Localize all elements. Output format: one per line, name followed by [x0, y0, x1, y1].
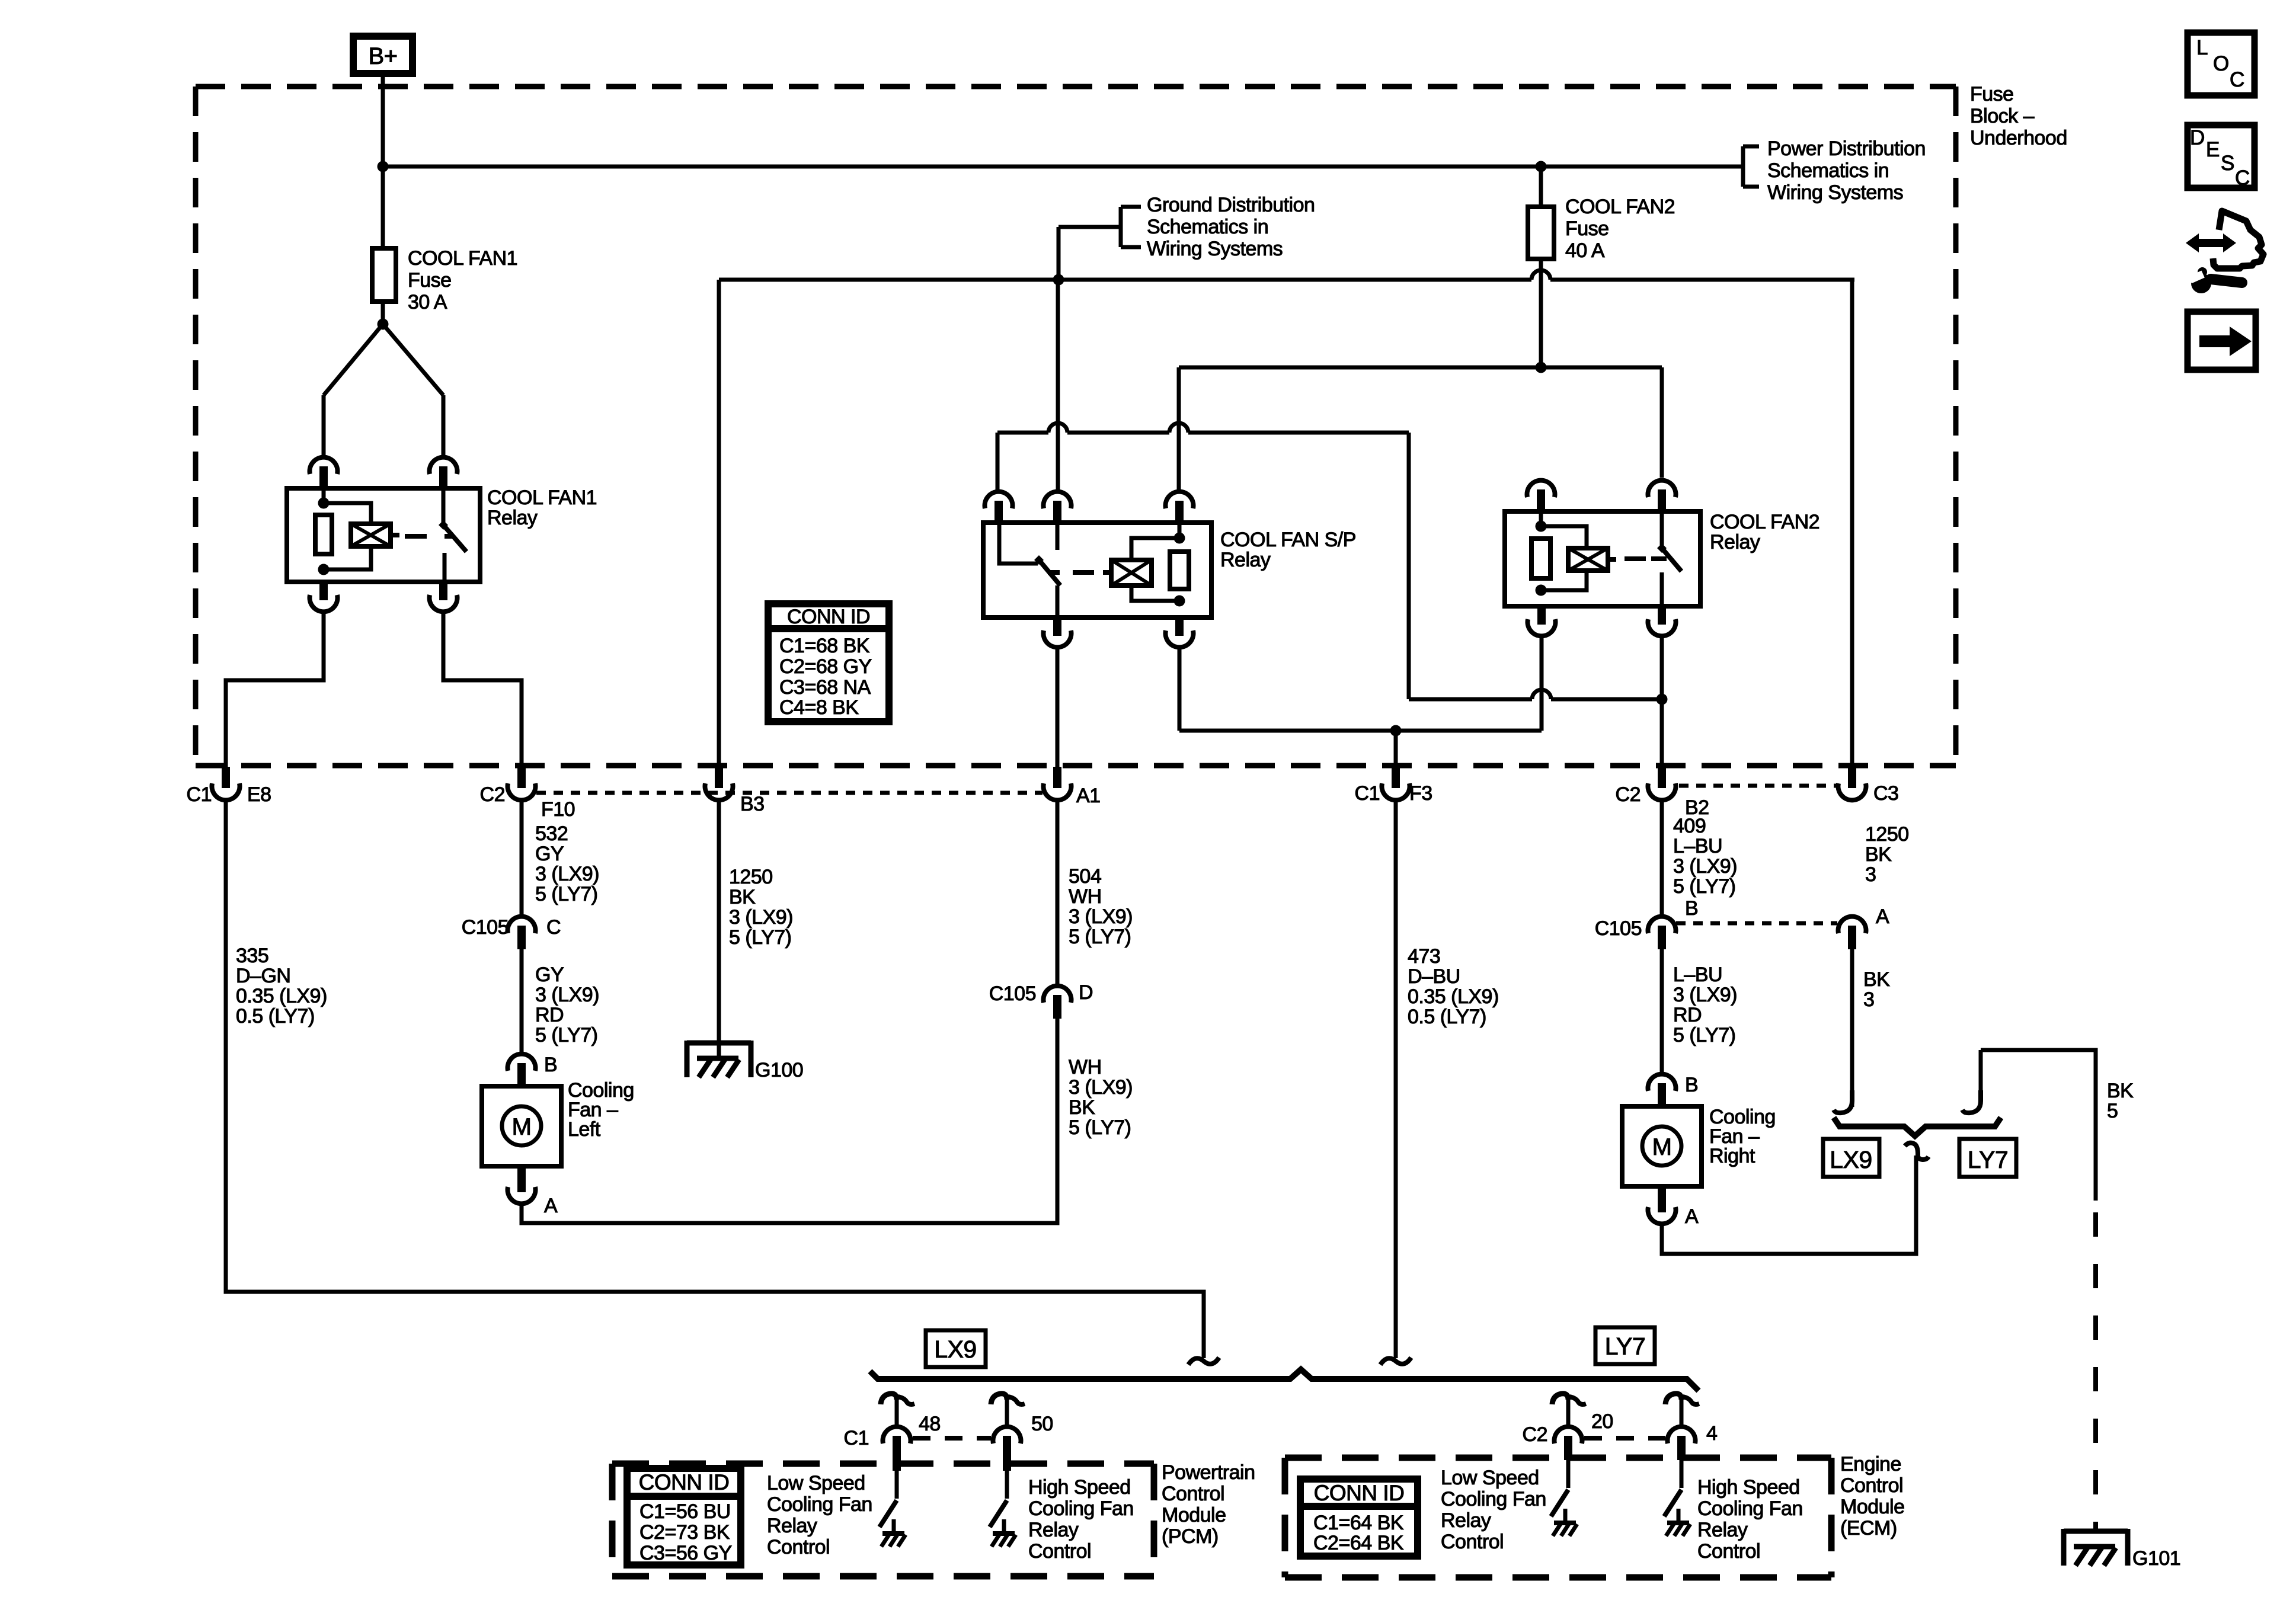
svg-text:3 (LX9): 3 (LX9) [1673, 855, 1737, 878]
svg-text:Wiring Systems: Wiring Systems [1767, 181, 1903, 204]
svg-text:BK: BK [1863, 968, 1890, 991]
svg-text:M: M [512, 1114, 532, 1140]
svg-text:5 (LY7): 5 (LY7) [1069, 1116, 1131, 1139]
svg-text:C: C [2235, 167, 2250, 190]
svg-text:3: 3 [1865, 863, 1876, 886]
svg-text:GY: GY [535, 964, 564, 986]
svg-text:20: 20 [1591, 1410, 1613, 1433]
svg-text:O: O [2213, 52, 2229, 75]
svg-text:C1: C1 [844, 1427, 869, 1449]
svg-text:Wiring Systems: Wiring Systems [1147, 238, 1283, 260]
svg-text:F3: F3 [1409, 782, 1432, 805]
svg-text:C2: C2 [480, 783, 505, 806]
svg-text:0.5 (LY7): 0.5 (LY7) [1408, 1006, 1486, 1028]
svg-text:504: 504 [1069, 865, 1101, 888]
svg-text:RD: RD [1673, 1004, 1702, 1026]
svg-text:3 (LX9): 3 (LX9) [1069, 905, 1133, 928]
svg-text:Control: Control [1697, 1540, 1760, 1563]
svg-text:532: 532 [535, 822, 568, 845]
svg-text:BK: BK [2107, 1080, 2134, 1102]
svg-text:5: 5 [2107, 1100, 2118, 1122]
svg-text:COOL FAN1: COOL FAN1 [487, 486, 597, 509]
svg-text:G100: G100 [755, 1059, 803, 1081]
svg-text:Relay: Relay [1220, 549, 1271, 571]
svg-text:Fuse: Fuse [1970, 83, 2014, 105]
svg-text:48: 48 [919, 1413, 941, 1435]
svg-text:C: C [546, 916, 561, 939]
svg-text:5 (LY7): 5 (LY7) [1673, 875, 1735, 898]
svg-text:WH: WH [1069, 1056, 1102, 1078]
svg-text:Fuse: Fuse [408, 269, 452, 292]
svg-text:G101: G101 [2132, 1547, 2180, 1570]
svg-text:C2=68 GY: C2=68 GY [779, 655, 872, 678]
svg-text:COOL FAN2: COOL FAN2 [1565, 196, 1675, 218]
svg-text:1250: 1250 [1865, 823, 1909, 846]
svg-text:Control: Control [1840, 1474, 1903, 1497]
svg-text:C1=68 BK: C1=68 BK [779, 635, 870, 657]
svg-text:C2: C2 [1523, 1423, 1547, 1446]
svg-text:L–BU: L–BU [1673, 835, 1722, 857]
svg-text:Cooling Fan: Cooling Fan [1028, 1497, 1134, 1520]
svg-text:Engine: Engine [1840, 1453, 1901, 1475]
svg-text:5 (LY7): 5 (LY7) [535, 883, 597, 905]
svg-text:C105: C105 [1595, 917, 1642, 940]
svg-text:Low Speed: Low Speed [1441, 1467, 1539, 1489]
svg-text:CONN ID: CONN ID [787, 606, 870, 628]
svg-text:WH: WH [1069, 885, 1102, 908]
svg-text:1250: 1250 [729, 866, 773, 888]
svg-text:A: A [1876, 905, 1889, 928]
svg-text:L: L [2196, 36, 2208, 59]
svg-text:Relay: Relay [1441, 1509, 1491, 1532]
svg-text:B+: B+ [368, 43, 397, 69]
svg-text:Power Distribution: Power Distribution [1767, 137, 1926, 160]
svg-text:Powertrain: Powertrain [1162, 1461, 1255, 1484]
svg-text:C4=8 BK: C4=8 BK [779, 696, 859, 719]
svg-text:L–BU: L–BU [1673, 964, 1722, 986]
svg-text:5 (LY7): 5 (LY7) [535, 1024, 597, 1046]
svg-text:3 (LX9): 3 (LX9) [1673, 984, 1737, 1006]
svg-text:3 (LX9): 3 (LX9) [535, 863, 599, 885]
svg-text:A1: A1 [1076, 785, 1101, 807]
svg-text:Relay: Relay [487, 507, 538, 529]
svg-text:C: C [2230, 68, 2244, 91]
svg-text:D–BU: D–BU [1408, 965, 1460, 988]
svg-text:Relay: Relay [1710, 531, 1760, 553]
svg-text:C3: C3 [1873, 782, 1898, 805]
svg-text:B: B [1685, 897, 1698, 920]
svg-text:3 (LX9): 3 (LX9) [1069, 1076, 1133, 1099]
svg-text:335: 335 [236, 945, 268, 967]
svg-text:Block –: Block – [1970, 105, 2035, 127]
svg-text:Low Speed: Low Speed [767, 1472, 865, 1494]
svg-text:D–GN: D–GN [236, 965, 290, 987]
svg-text:Right: Right [1709, 1145, 1755, 1167]
svg-text:Left: Left [568, 1118, 601, 1141]
svg-text:C2: C2 [1616, 783, 1641, 806]
svg-text:C1=64 BK: C1=64 BK [1313, 1512, 1404, 1534]
svg-text:Module: Module [1162, 1504, 1226, 1526]
svg-text:30 A: 30 A [408, 291, 447, 313]
svg-text:C1=56 BU: C1=56 BU [639, 1500, 731, 1523]
svg-text:COOL FAN1: COOL FAN1 [408, 247, 517, 270]
svg-text:0.35 (LX9): 0.35 (LX9) [236, 985, 327, 1007]
svg-text:C1: C1 [187, 783, 212, 806]
svg-text:5 (LY7): 5 (LY7) [1069, 926, 1131, 948]
svg-text:3 (LX9): 3 (LX9) [729, 906, 793, 929]
svg-text:CONN ID: CONN ID [1314, 1481, 1405, 1505]
svg-text:5 (LY7): 5 (LY7) [1673, 1024, 1735, 1046]
svg-text:C2=73 BK: C2=73 BK [639, 1521, 730, 1544]
svg-text:LX9: LX9 [934, 1336, 976, 1363]
svg-text:D: D [1079, 981, 1093, 1004]
svg-text:(ECM): (ECM) [1840, 1517, 1897, 1539]
svg-text:High Speed: High Speed [1028, 1476, 1131, 1499]
svg-text:409: 409 [1673, 815, 1706, 837]
svg-text:5 (LY7): 5 (LY7) [729, 926, 791, 949]
svg-text:BK: BK [729, 886, 756, 908]
svg-text:3: 3 [1863, 988, 1874, 1011]
svg-text:COOL FAN S/P: COOL FAN S/P [1220, 529, 1356, 551]
svg-text:40 A: 40 A [1565, 239, 1605, 262]
svg-text:3 (LX9): 3 (LX9) [535, 984, 599, 1006]
svg-text:Relay: Relay [767, 1515, 817, 1537]
svg-text:Control: Control [1162, 1483, 1224, 1505]
svg-text:CONN ID: CONN ID [639, 1470, 730, 1494]
svg-text:C3=56 GY: C3=56 GY [639, 1542, 732, 1564]
svg-text:Schematics in: Schematics in [1767, 159, 1889, 182]
svg-text:(PCM): (PCM) [1162, 1525, 1219, 1548]
svg-text:Cooling Fan: Cooling Fan [1441, 1488, 1546, 1510]
svg-text:Fuse: Fuse [1565, 217, 1609, 240]
svg-text:C105: C105 [989, 982, 1036, 1005]
svg-text:LY7: LY7 [1968, 1146, 2008, 1173]
svg-text:M: M [1652, 1134, 1672, 1160]
svg-text:Cooling Fan: Cooling Fan [767, 1493, 872, 1516]
svg-text:LY7: LY7 [1605, 1333, 1645, 1360]
svg-text:COOL FAN2: COOL FAN2 [1710, 511, 1819, 533]
svg-text:E8: E8 [247, 783, 271, 806]
svg-text:C105: C105 [462, 916, 509, 939]
svg-text:LX9: LX9 [1830, 1146, 1872, 1173]
svg-text:Control: Control [1441, 1531, 1504, 1553]
svg-text:473: 473 [1408, 945, 1440, 968]
svg-text:0.35 (LX9): 0.35 (LX9) [1408, 985, 1499, 1008]
svg-text:B: B [1685, 1074, 1698, 1096]
svg-text:C2=64 BK: C2=64 BK [1313, 1532, 1404, 1554]
svg-text:Module: Module [1840, 1496, 1905, 1518]
svg-text:GY: GY [535, 843, 564, 865]
svg-text:50: 50 [1031, 1413, 1053, 1435]
svg-text:Schematics in: Schematics in [1147, 216, 1268, 238]
svg-text:B: B [544, 1054, 557, 1076]
svg-text:F10: F10 [541, 798, 575, 821]
svg-text:BK: BK [1069, 1096, 1095, 1119]
svg-text:Control: Control [767, 1536, 830, 1558]
svg-text:B3: B3 [740, 793, 765, 815]
svg-text:A: A [1685, 1205, 1699, 1228]
svg-text:Relay: Relay [1697, 1519, 1748, 1541]
svg-text:A: A [544, 1195, 558, 1217]
svg-text:Underhood: Underhood [1970, 127, 2067, 149]
svg-text:Cooling Fan: Cooling Fan [1697, 1497, 1803, 1520]
svg-text:Relay: Relay [1028, 1519, 1079, 1541]
svg-text:Control: Control [1028, 1540, 1091, 1563]
svg-text:S: S [2221, 152, 2234, 175]
svg-text:0.5 (LY7): 0.5 (LY7) [236, 1005, 315, 1028]
svg-text:C3=68 NA: C3=68 NA [779, 676, 871, 699]
svg-text:C1: C1 [1355, 782, 1380, 805]
svg-text:4: 4 [1706, 1422, 1717, 1445]
svg-text:RD: RD [535, 1004, 564, 1026]
svg-text:E: E [2206, 138, 2220, 161]
svg-text:BK: BK [1865, 843, 1892, 866]
svg-text:D: D [2190, 126, 2205, 149]
svg-text:High Speed: High Speed [1697, 1476, 1800, 1499]
svg-text:Ground Distribution: Ground Distribution [1147, 194, 1315, 216]
